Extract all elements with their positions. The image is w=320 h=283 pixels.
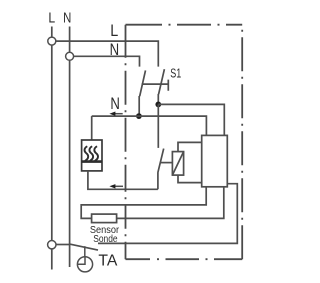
- timer contact TA blade: [70, 244, 98, 250]
- terminal L bottom: [48, 241, 56, 249]
- svg-text:TA: TA: [98, 253, 118, 270]
- svg-text:L: L: [48, 11, 55, 27]
- heater element E1: [82, 140, 102, 171]
- wire L to S1: [56, 41, 159, 67]
- wire sensor right to contactor bottom right: [117, 187, 224, 219]
- wire N to S1: [74, 56, 140, 66]
- wire L bottom terminal to TA: [56, 244, 70, 246]
- wire heater bottom return: [88, 171, 158, 189]
- svg-text:N: N: [110, 40, 120, 59]
- enclosure boundary right (dash-dot): [241, 25, 243, 260]
- relay mechanical link: [161, 162, 173, 164]
- svg-text:S1: S1: [170, 66, 181, 81]
- junction dot B (S1 right pole / relay feed): [155, 102, 161, 108]
- svg-text:N: N: [110, 94, 120, 113]
- svg-text:N: N: [63, 11, 71, 27]
- wire N supply vertical: [69, 27, 71, 268]
- junction dot A (N rail / S1 left pole): [136, 113, 142, 119]
- timer TA stem: [84, 246, 86, 257]
- enclosure boundary bottom (dash-dot): [126, 258, 243, 260]
- wire relay contact feed: [157, 104, 159, 147]
- enclosure boundary top (dash-dot): [126, 24, 243, 26]
- enclosure boundary left (dash-dot): [125, 25, 127, 260]
- sensor R1: [92, 214, 117, 223]
- switch S1 right pole blade: [158, 69, 164, 104]
- wire contactor right to TA: [98, 184, 237, 244]
- wire coil bottom lead: [178, 175, 202, 183]
- wire contactor bottom left to sensor: [81, 187, 206, 219]
- relay contact blade: [158, 149, 164, 190]
- wire N rail: [92, 116, 207, 135]
- svg-text:L: L: [110, 21, 118, 40]
- timer TA clock: [77, 257, 92, 272]
- switch S1 actuator bar: [142, 80, 169, 91]
- wire L supply vertical: [51, 27, 53, 270]
- wire S1 to contactor top right terminal: [158, 104, 224, 135]
- arrow heater return: [114, 185, 123, 187]
- terminal L top: [48, 37, 56, 45]
- wire N rail to heater top: [91, 116, 93, 140]
- relay coil K1: [172, 152, 183, 176]
- contactor U1: [202, 135, 228, 186]
- switch S1 left pole blade: [139, 70, 145, 116]
- arrow N rail: [114, 113, 123, 115]
- wire coil top lead: [178, 142, 202, 151]
- terminal N top: [66, 52, 74, 60]
